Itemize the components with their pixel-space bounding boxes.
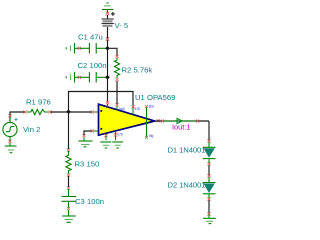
pin x-mark R1 left xyxy=(23,110,26,113)
pin x-mark R2 top xyxy=(115,55,118,58)
ground (below C3) xyxy=(62,210,75,222)
pin x-mark R3 top xyxy=(67,148,70,151)
pin x-mark E/D (top x=133) xyxy=(131,105,134,108)
ground (left of C1, bars leftward) xyxy=(66,43,74,54)
wire R3 to C3 xyxy=(68,176,70,187)
pin x-mark C3 top xyxy=(67,186,70,189)
svg-text:Iout:1: Iout:1 xyxy=(172,123,191,132)
wire rail to R2 top xyxy=(108,48,118,55)
svg-text:D1 1N4001: D1 1N4001 xyxy=(168,146,206,155)
pin Iflag (vertical line across apex) xyxy=(146,108,148,137)
wire output xyxy=(156,120,209,122)
svg-text:C2 100n: C2 100n xyxy=(78,61,107,70)
svg-text:E/D: E/D xyxy=(135,107,141,111)
wire junction to R3 xyxy=(68,112,70,149)
pin stub bottom ground (x=115.5) xyxy=(115,131,117,140)
pin x-mark C3 bottom xyxy=(67,207,70,210)
pin x-mark Vin top xyxy=(8,114,11,117)
svg-text:Iadj: Iadj xyxy=(119,107,125,111)
svg-text:V- 5: V- 5 xyxy=(115,21,129,30)
ground (below op-amp x=106) xyxy=(100,142,111,148)
wire R1 to inverting input xyxy=(51,111,93,113)
ground (below op-amp x=115.5) xyxy=(112,142,123,148)
node junction C2 / V- rail xyxy=(105,75,110,80)
pin stub E/D xyxy=(132,108,134,115)
plus sign battery polarity xyxy=(111,12,115,16)
svg-text:R2 5.76k: R2 5.76k xyxy=(122,66,153,75)
pin x-mark battery top xyxy=(106,12,110,16)
pin x-mark D1 cathode xyxy=(207,162,210,165)
ground (top, above battery, bars upward) xyxy=(102,3,114,13)
pin x-mark R3 bottom xyxy=(67,173,70,176)
ground (below Vin) xyxy=(5,143,17,153)
node junction C1 / V- rail xyxy=(105,46,110,51)
ground (left of C2, bars leftward) xyxy=(66,72,74,83)
current meter Iout (green segment with arrow) xyxy=(163,120,196,122)
pin x-mark op-amp +IN xyxy=(91,129,94,132)
diode D1 1N4001 xyxy=(203,142,216,164)
pin x-mark C2 left xyxy=(78,76,81,79)
svg-text:Iflg: Iflg xyxy=(149,134,154,138)
svg-text:R1 976: R1 976 xyxy=(26,98,51,107)
input polarity marks xyxy=(100,110,102,112)
pin x-mark C1 left xyxy=(78,47,81,50)
pin x-mark R1 right xyxy=(49,110,52,113)
pin stub V- xyxy=(107,104,109,107)
svg-text:C3 100n: C3 100n xyxy=(75,197,104,206)
pin x-mark D1 anode xyxy=(207,139,210,142)
wire +IN to ground xyxy=(84,131,92,135)
wire D1 to D2 xyxy=(208,165,210,177)
pin stub -IN xyxy=(94,111,99,113)
op-amp U1 OPA569 xyxy=(99,104,155,135)
node junction inverting input xyxy=(66,110,71,115)
svg-text:U1 OPA569: U1 OPA569 xyxy=(135,93,175,102)
svg-text:Vin 2: Vin 2 xyxy=(23,125,40,134)
ground (below +IN) xyxy=(78,138,92,147)
resistor R1 976 (horizontal zigzag) xyxy=(27,109,49,114)
source Vin 2 xyxy=(10,112,25,122)
svg-text:D2 1N4001: D2 1N4001 xyxy=(168,181,206,190)
pin x-mark +IN ground xyxy=(82,134,85,137)
battery V- 5 xyxy=(102,15,114,26)
pin x-mark op-amp -IN xyxy=(91,110,94,113)
resistor R2 5.76k (vertical zigzag) xyxy=(114,58,119,78)
pin x-mark ground right xyxy=(207,212,210,215)
pin stub Iadj xyxy=(116,106,118,110)
pin stub bottom ground (x=106) xyxy=(105,134,107,141)
svg-text:E/D: E/D xyxy=(117,133,123,137)
svg-text:Bal: Bal xyxy=(149,105,154,109)
wire output corner down to D1 xyxy=(208,121,210,141)
pin x-mark D2 cathode xyxy=(207,197,210,200)
wire D2 to ground xyxy=(208,200,210,213)
svg-text:R3 150: R3 150 xyxy=(75,160,100,169)
wire battery to rail xyxy=(107,27,109,102)
plus sign Vin polarity (teal) xyxy=(14,118,18,122)
capacitor C1 47u xyxy=(75,43,107,54)
diode D2 1N4001 xyxy=(203,177,216,199)
pin x-mark Vin bottom xyxy=(8,140,11,143)
pin x-mark V- (top x=107.5) xyxy=(106,101,109,104)
ground (bottom right) xyxy=(203,214,216,224)
resistor R3 150 (vertical zigzag) xyxy=(66,151,71,174)
pin stub +IN xyxy=(94,130,99,132)
pin x-mark output xyxy=(157,119,160,122)
capacitor C3 100n xyxy=(62,189,77,208)
wire feedback node xyxy=(69,92,134,112)
wire R2 bottom to op-amp pin xyxy=(116,81,118,104)
pin x-mark battery bottom xyxy=(106,37,110,41)
capacitor C2 100n xyxy=(75,72,107,83)
svg-text:C1 47u: C1 47u xyxy=(78,33,103,42)
pin x-mark Iadj (top x=117) xyxy=(115,103,118,106)
pin x-mark D2 anode xyxy=(207,174,210,177)
pin x-mark R2 bottom xyxy=(115,78,118,81)
